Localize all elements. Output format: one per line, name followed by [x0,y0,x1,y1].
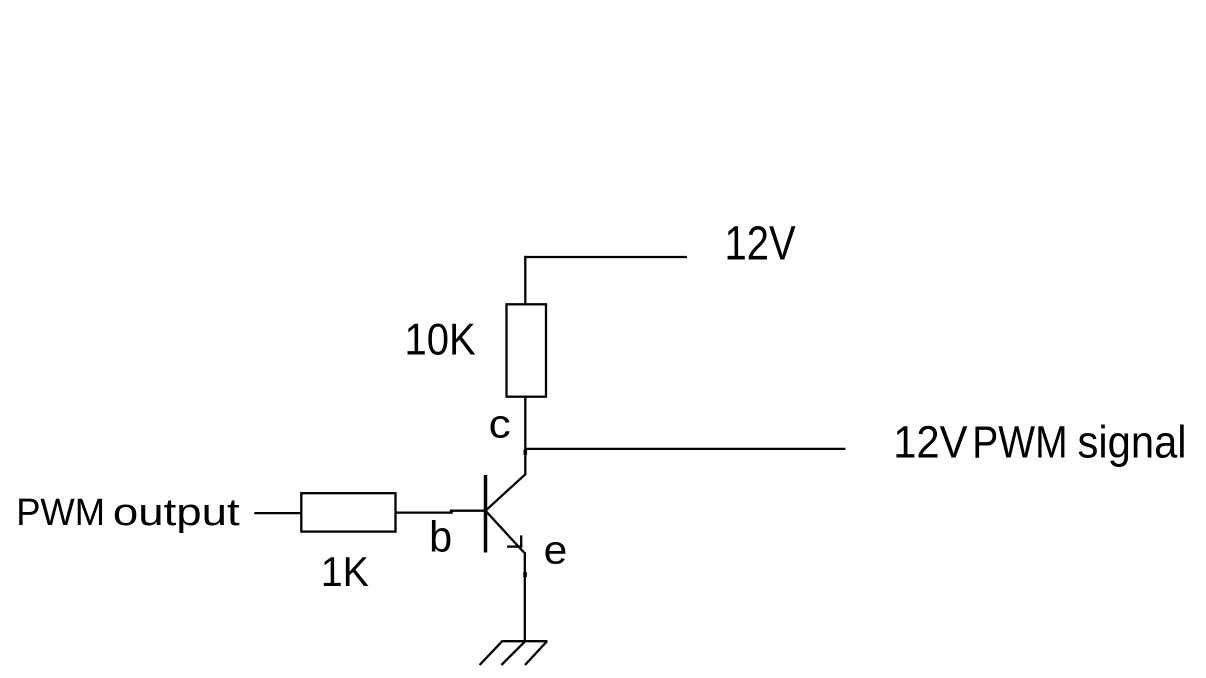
wire: 12V supply rail horizontal [524,256,687,258]
transistor Q1 emitter arrow tick vertical [520,535,522,547]
svg-text:PWM: PWM [16,491,105,534]
ground hatch middle [501,641,525,665]
svg-text:12V: 12V [725,217,797,271]
resistor R2 1K body [301,493,395,531]
wire: R1 bottom to collector [524,397,526,476]
transistor Q1 base bar [484,475,488,553]
ground hatch right [525,641,547,665]
ground hatch left [480,641,502,665]
wire: emitter down to ground [524,552,526,642]
wire: PWM output to R2 [254,512,301,514]
svg-text:PWM: PWM [972,417,1067,468]
resistor R1 10K body [507,304,547,396]
svg-text:1K: 1K [321,548,369,595]
transistor Q1 emitter arrow tick horizontal [507,545,522,547]
svg-text:12V: 12V [893,417,968,468]
wire: R2 to base segment [396,511,453,513]
svg-text:signal: signal [1078,417,1187,468]
wire: collector node to PWM signal output [525,448,845,450]
ground top bar [501,640,547,642]
wire: base jog segment [450,510,486,512]
junction stub at collector node [523,450,527,456]
ground symbol [480,641,548,665]
transistor Q1 emitter diagonal [487,512,524,553]
svg-text:10K: 10K [405,313,476,364]
junction stub on emitter wire [523,572,527,577]
svg-text:output: output [113,491,240,534]
wire: rail down to R1 top [524,256,526,304]
svg-text:c: c [489,403,511,447]
svg-text:b: b [429,513,452,561]
transistor Q1 collector diagonal [487,474,526,510]
svg-text:e: e [544,529,568,573]
